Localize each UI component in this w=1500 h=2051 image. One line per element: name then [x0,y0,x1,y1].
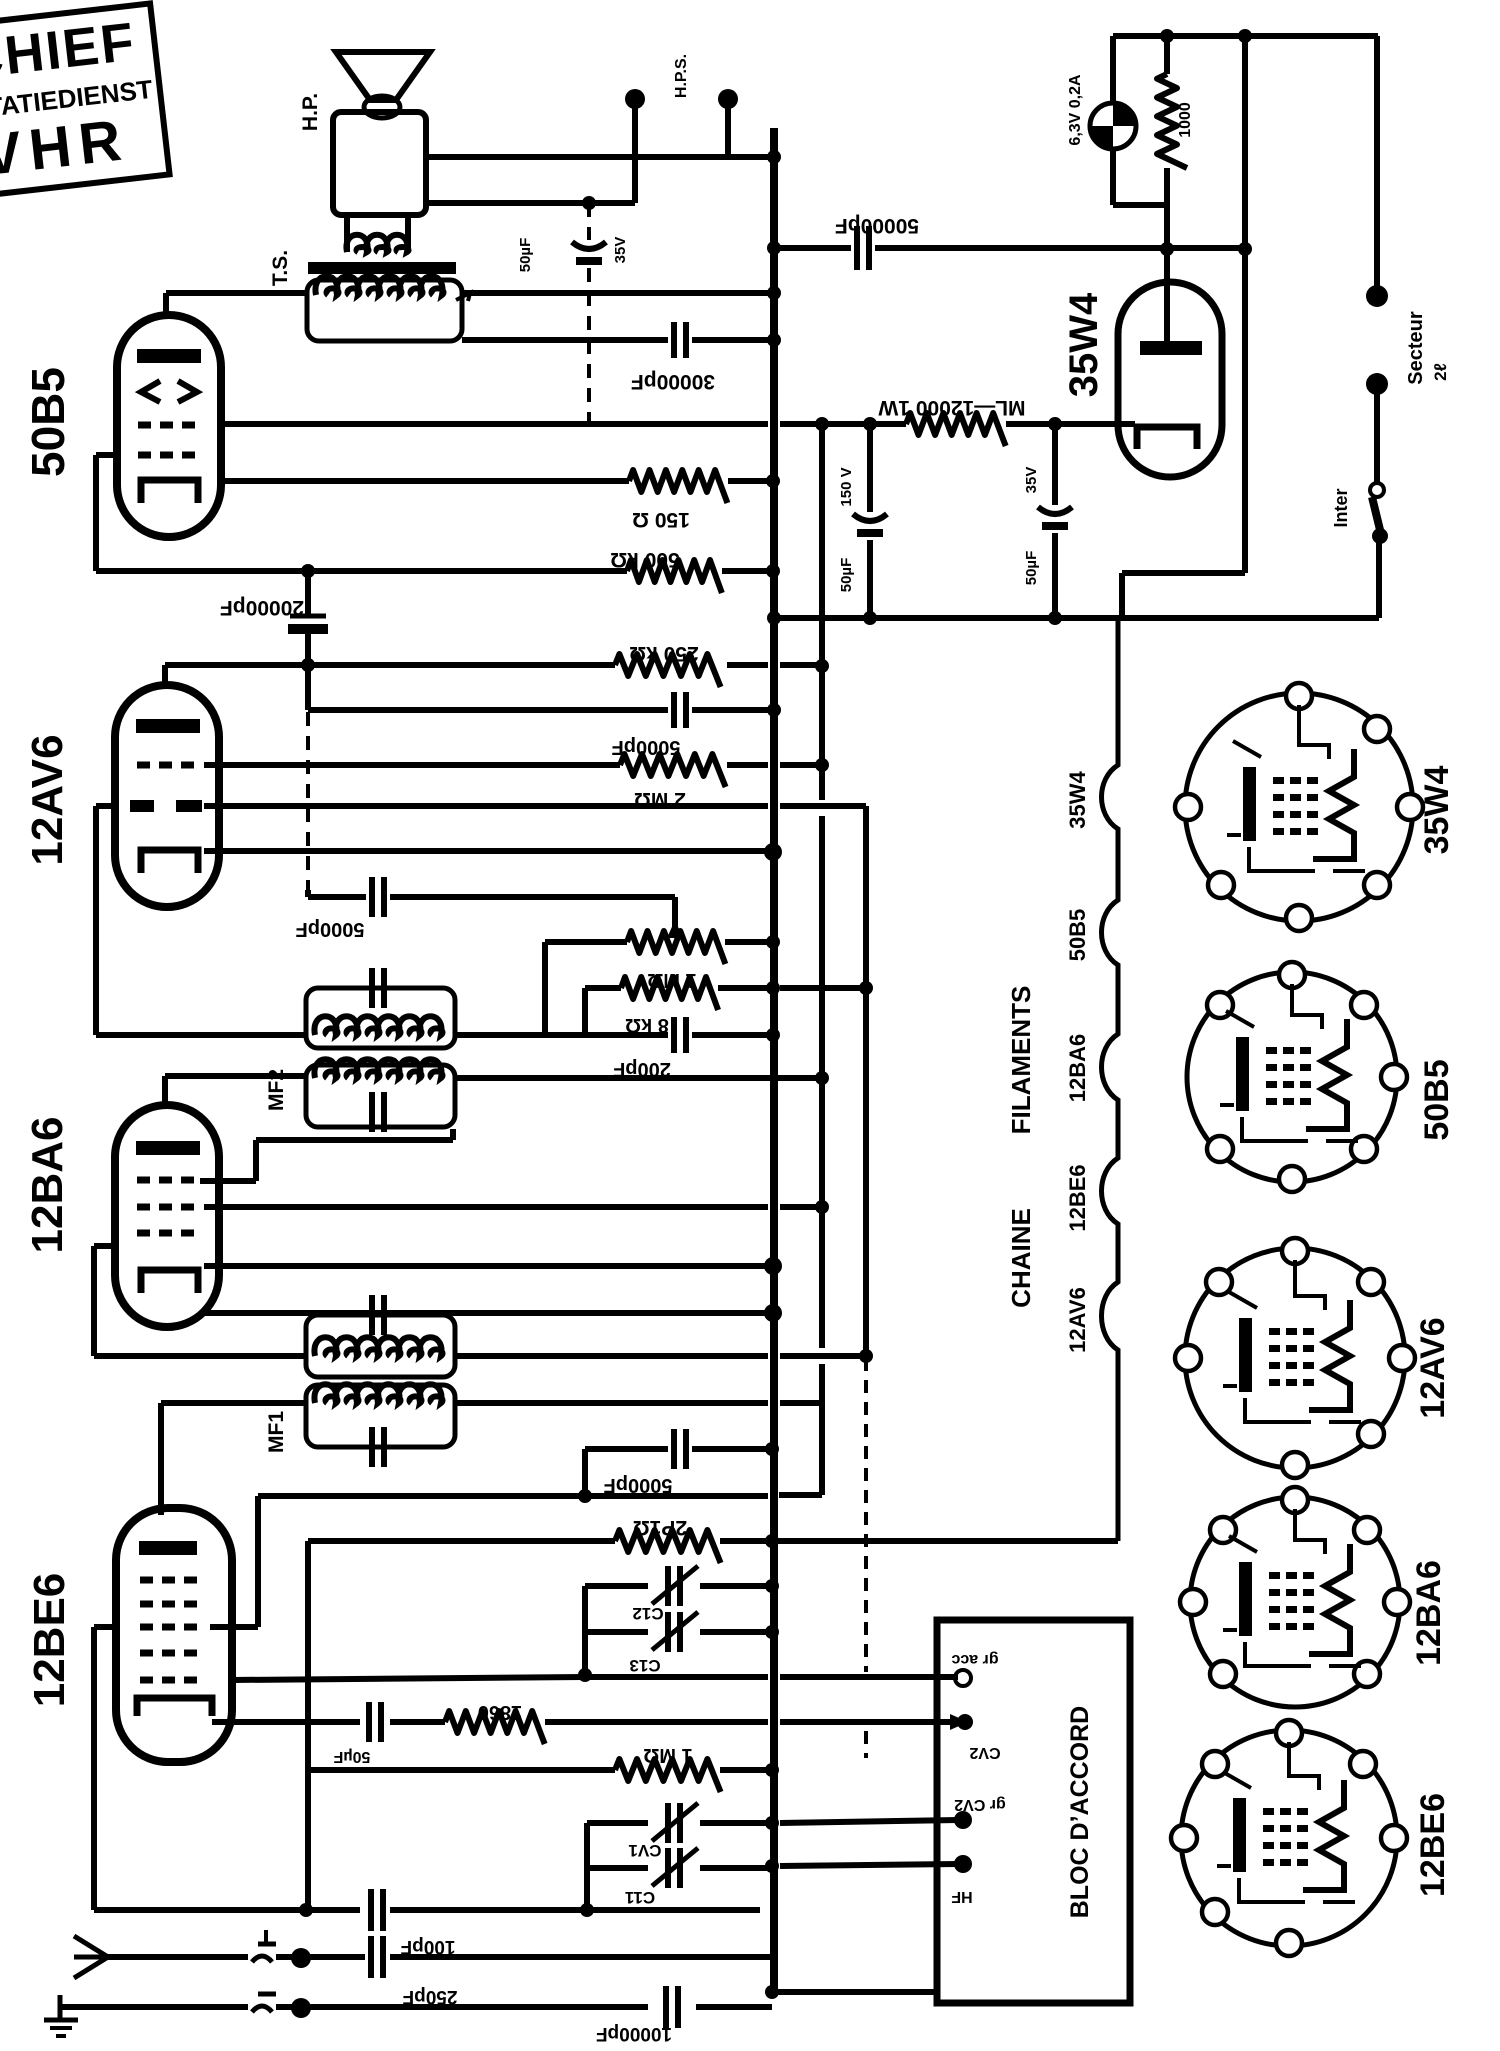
wire 1M line [545,939,627,945]
capacitor 5000pF AVC [369,877,375,917]
wire AVC cap line [305,890,311,897]
capacitor MF1 top [369,1295,375,1335]
terminal gnd [291,1998,311,2018]
wire 50B5 screen to B+ line [221,421,768,427]
svg-text:20000pF: 20000pF [220,596,304,619]
transformer MF1 bottom box [306,1385,455,1447]
wire 12AV6 grid 2M line [204,762,620,768]
wire 50B5 cathode line [221,478,629,484]
resistor 1 Mohm osc [615,1759,721,1792]
pilot lamp 6,3V 0,2A [1090,103,1136,149]
antenna series cap [252,1956,272,1962]
node 50000-bus [767,241,781,255]
wire speaker lower to terminal [426,200,635,206]
wire diode line right [204,803,768,809]
wire ant line [276,1954,365,1960]
capacitor 10000pF [663,1986,669,2028]
node bus bottom corner [765,1985,779,1999]
wire diode line left [96,803,115,809]
tube 12BE6 cathode [137,1698,212,1716]
ground symbol [58,1995,63,2020]
svg-text:500 kΩ: 500 kΩ [610,548,679,571]
wire C11 line [587,1865,648,1871]
node res bottom line [1160,242,1174,256]
tube 12AV6 cathode [141,850,198,873]
wire 30000pF line [462,337,668,343]
wire 50B5 grid line 500k [96,568,627,574]
wire screens line [258,1493,768,1499]
resistor 2 Mohm [620,754,726,787]
node coupling-plate line [301,658,315,672]
resistor 8 kohm [621,977,718,1010]
wire lamp branch [1110,36,1116,104]
wire AVC dashed [306,712,310,890]
tube 12BA6 grid rows [137,1177,200,1184]
svg-text:12BA6: 12BA6 [1065,1034,1090,1102]
svg-text:Inter: Inter [1331,488,1351,527]
wire 12BA6 1313 line [204,1310,772,1316]
capacitor 200pF [671,1017,677,1053]
svg-text:150 Ω: 150 Ω [632,508,690,531]
node screens 5000 [578,1489,592,1503]
svg-text:2P1Ω: 2P1Ω [633,1516,687,1539]
svg-text:35V: 35V [1023,467,1040,494]
wire speaker to bus [426,154,774,160]
wire osc vertical 308 [305,1541,311,1770]
speaker body [333,112,426,215]
svg-text:12BE6: 12BE6 [1065,1164,1090,1231]
wire filament step [1119,573,1125,618]
wire 12BA6 g1 to MF2 [200,1178,256,1184]
svg-text:35W4: 35W4 [1065,771,1090,829]
resistor 1000 ohm [1164,36,1170,74]
node 8k-bus [766,981,780,995]
node grid-bus [766,564,780,578]
trimmer C13 [665,1612,671,1652]
svg-text:50µF: 50µF [517,238,534,273]
wire T.S. secondary to bus [462,290,774,296]
transformer MF2 bottom coil [314,1059,442,1078]
svg-text:50B5: 50B5 [1418,1059,1456,1140]
node 2M-822 [815,758,829,772]
transformer T.S. core bar [308,262,456,274]
terminal ant [291,1948,311,1968]
node 25k bus [765,1534,779,1548]
wire bus bottom to bloc [771,1989,940,1995]
svg-text:35W4: 35W4 [1418,766,1456,855]
wire 12BE6 cathode line [212,1719,360,1725]
tube 50B5 screen grid [138,422,200,429]
capacitor 5000pF b [671,692,677,728]
svg-text:HF: HF [951,1888,973,1905]
svg-text:5000pF: 5000pF [296,918,365,940]
terminal HP 2 [725,100,731,157]
transformer MF1 top box [306,1315,455,1377]
wire 12BA6 grid left [94,1243,115,1249]
transformer MF2 top box [306,988,455,1048]
svg-text:10000pF: 10000pF [596,2023,672,2044]
bloc d'accord box [937,1620,1130,2003]
node det-bus [766,1028,780,1042]
capacitor 5000pF c [671,1429,677,1469]
svg-text:VHR: VHR [0,107,132,188]
svg-text:12BA6: 12BA6 [1410,1560,1448,1666]
capacitor 100pF [368,1889,374,1931]
capacitor 50uF cath [366,1702,372,1742]
filament chain wire [1102,618,1119,1541]
stamp VHR service [0,3,170,199]
capacitor 50uF 150V [853,514,887,521]
tube 12BE6 envelope [116,1508,232,1762]
capacitor 50000pF [854,226,860,270]
node C11 bus [765,1859,779,1873]
node 1M-bus [766,935,780,949]
wire 866 vertical [863,810,869,1352]
capacitor MF2 top [369,968,375,1008]
node 8k-866 [859,981,873,995]
svg-text:50µF: 50µF [333,1748,370,1765]
wire mains line [774,615,1379,621]
pot wiper arrow [667,920,683,938]
svg-text:12BE6: 12BE6 [25,1573,74,1708]
wire 5000pF c net [582,1449,588,1496]
wire cap35 drop [1052,424,1058,505]
wire 12BE6 plate lead [158,1403,164,1515]
svg-text:H.P.S.: H.P.S. [673,54,690,98]
node 12AV6 cathode bus [764,843,782,861]
transformer T.S. secondary coil [315,276,443,295]
tube 12BA6 plate bar [136,1141,200,1155]
svg-text:5000pF: 5000pF [604,1474,673,1496]
wire CV1 net [584,1823,590,1910]
node B+ MF2 [815,1071,829,1085]
node cathode-bus [766,474,780,488]
svg-text:12AV6: 12AV6 [1065,1287,1090,1353]
node 1313 bus [764,1304,782,1322]
terminal HF [954,1855,972,1873]
socket 12BE6 [1181,1730,1397,1946]
capacitor MF1 bottom [369,1427,375,1467]
antenna symbol [74,1936,108,1978]
svg-text:50µF: 50µF [838,558,855,593]
svg-text:12BE6: 12BE6 [1414,1793,1452,1897]
node res top [1160,29,1174,43]
wire switch down [1376,536,1382,618]
svg-text:C11: C11 [625,1888,655,1907]
tube 50B5 control grid [138,452,200,459]
terminal gr osc [954,1811,972,1829]
node speaker-bus [767,150,781,164]
tube 12AV6 envelope [115,685,219,907]
node mains-bus [767,611,781,625]
transformer MF1 top coil [314,1337,442,1356]
wire secteur to switch [1374,384,1380,484]
svg-text:35V: 35V [612,237,629,264]
svg-text:100pF: 100pF [401,1936,456,1957]
svg-text:6,3V 0,2A: 6,3V 0,2A [1067,74,1084,146]
capacitor 30000pF [671,322,677,358]
node C12C13 foot [578,1668,592,1682]
svg-text:CHAINE: CHAINE [1006,1208,1036,1308]
wire 12BE6 g3 line [232,1677,585,1680]
tube 12BA6 cathode [141,1270,198,1293]
wire 50B5 grid left [96,452,117,458]
svg-text:250 kΩ: 250 kΩ [629,642,698,665]
svg-text:35W4: 35W4 [1062,292,1106,397]
tube 35W4 plate lead [1164,249,1170,341]
wire gnd line2 [276,2004,648,2010]
resistor 25k [615,1530,721,1563]
socket 12AV6 [1185,1248,1405,1468]
node 30000-bus [767,333,781,347]
node 12BA6 cath bus [764,1257,782,1275]
tube 35W4 cathode [1137,427,1197,449]
node 250k-822 [815,659,829,673]
tube 12AV6 grid [137,762,200,769]
switch Inter [1370,483,1384,497]
svg-text:gr CV2: gr CV2 [954,1796,1006,1813]
node coupling top [301,564,315,578]
wire T.S. secondary to 50B5 plate [166,290,307,296]
wire 1M osc line [308,1767,615,1773]
resistor 1 Mohm pot [627,931,725,964]
wire right drop [1242,36,1248,573]
tube 50B5 beam plates [141,381,160,402]
svg-text:12BA6: 12BA6 [23,1117,72,1254]
svg-text:gr acc: gr acc [951,1651,998,1668]
capacitor 50uF 35V speaker [572,242,606,249]
node cap150 bottom [863,611,877,625]
transformer MF2 top coil [314,1016,442,1035]
svg-text:12AV6: 12AV6 [23,734,72,865]
tube 12AV6 plate bar [136,719,200,733]
tube 35W4 plate bar [1140,341,1202,355]
node cap150 top [863,417,877,431]
gnd series cap [252,2006,272,2012]
node 866 MF1 [859,1349,873,1363]
resistor 150 ohm [629,470,727,503]
node 5000b-bus [767,703,781,717]
resistor 12000 1W [822,421,906,427]
wire 25k line [308,1538,615,1544]
wire 12AV6 cathode line [204,848,772,854]
svg-text:1000: 1000 [1177,102,1194,138]
tube 50B5 envelope [117,315,221,537]
wire cap150 drop [867,424,873,512]
svg-text:1 MΩ: 1 MΩ [643,1744,692,1766]
transformer T.S. secondary box [307,280,462,341]
node B+ 1207 [815,1200,829,1214]
svg-text:ML—12000 1W: ML—12000 1W [878,396,1025,419]
capacitor MF2 bottom [369,1092,375,1132]
svg-text:CV1: CV1 [628,1841,661,1860]
wire 12BE6 screens right [210,1624,258,1630]
svg-text:50B5: 50B5 [22,367,74,477]
svg-text:C12: C12 [632,1604,663,1623]
wire 12AV6 plate top [162,665,168,685]
tube 50B5 cathode [141,480,198,503]
wire main bus vertical [770,128,778,1992]
tube 12BE6 plate bar [139,1541,197,1555]
node cap35 bottom [1048,611,1062,625]
node screen-822 [815,417,829,431]
wire 8k line [585,985,621,991]
svg-text:50000pF: 50000pF [835,214,919,237]
svg-text:T.S.: T.S. [269,250,292,286]
node CV1 bus [765,1816,779,1830]
tube 12AV6 diode plates [130,800,154,812]
svg-text:BLOC D’ACCORD: BLOC D’ACCORD [1066,1706,1094,1919]
wire 12BE6 grid left [94,1624,116,1630]
transformer T.S. primary coil [346,235,408,252]
node T.S.-bus [767,286,781,300]
tube 35W4 envelope [1118,282,1222,477]
terminal gr acc [955,1670,971,1686]
node CV1 foot [580,1903,594,1917]
terminal secteur 1 [1366,285,1388,307]
svg-text:150 V: 150 V [838,467,855,506]
resistor 250 kohm [615,654,721,687]
transformer MF2 bottom box [306,1065,455,1127]
socket 35W4 [1185,693,1413,921]
wire dashed speaker drop [587,203,591,240]
capacitor 50uF 35V b [1038,507,1072,514]
trimmer C12 [665,1566,671,1606]
node right drop top [1238,29,1252,43]
svg-text:250pF: 250pF [403,1986,458,2007]
wire detector line [96,1032,306,1038]
node C12 bus [765,1579,779,1593]
wire coupling vertical [305,571,311,614]
wire top line [1113,33,1378,39]
wire MF1 bottom line [161,1400,306,1406]
svg-text:H.P.: H.P. [299,93,322,131]
wire 50000pF line [774,245,851,251]
wire MF2 to B+ [455,1075,822,1081]
socket 50B5 [1187,972,1397,1182]
wire MF1 top line [94,1353,306,1359]
node speaker drop [582,196,596,210]
svg-text:50B5: 50B5 [1065,909,1090,962]
svg-text:12AV6: 12AV6 [1414,1317,1452,1418]
wire 50B5 plate top lead [163,293,169,315]
tube 12BA6 envelope [115,1105,219,1327]
svg-text:1860: 1860 [478,1701,523,1723]
svg-text:CV2: CV2 [969,1744,1000,1761]
tube 12BE6 grid rows [140,1577,205,1584]
wire osc grid line [94,1907,360,1913]
speaker H.P. horn [336,52,430,100]
svg-text:C13: C13 [629,1656,660,1675]
transformer MF1 bottom coil [314,1384,442,1403]
terminal secteur 2 [1366,373,1388,395]
trimmer CV1 [665,1803,671,1843]
node C13 bus [765,1625,779,1639]
wire C13 line [585,1629,648,1635]
svg-text:2ℓ: 2ℓ [1431,363,1450,381]
svg-text:Secteur: Secteur [1405,311,1427,385]
node 1Mosc bus [765,1763,779,1777]
wire plate 250k line [165,662,615,668]
capacitor 20000pF [290,614,326,619]
resistor 1860 [445,1711,545,1744]
tube 50B5 plate bar [137,349,201,363]
node right drop 248 [1238,242,1252,256]
trimmer C11 [665,1848,671,1888]
node cap35 top [1048,417,1062,431]
socket 12BA6 [1190,1497,1400,1707]
terminal HP 1 [632,100,638,203]
wire 5000pF line [308,707,668,713]
wire C12 net [582,1586,588,1673]
terminal CV2 [957,1714,973,1730]
wire secteur top [1374,36,1380,294]
wire 12BA6 cathode line [204,1263,772,1269]
wire 12BA6 1207 line [204,1204,768,1210]
speaker throat [364,96,400,118]
svg-text:FILAMENTS: FILAMENTS [1006,986,1036,1135]
resistor 500 kohm [627,560,722,593]
capacitor 250pF [368,1936,374,1978]
wire 12BA6 plate lead [162,1076,168,1105]
wire B+ vertical [819,424,825,800]
node grid 308 [299,1903,313,1917]
transformer T.S. wire body-left-down [344,215,350,252]
svg-text:50µF: 50µF [1023,551,1040,586]
node 5000c bus [765,1442,779,1456]
wire gnd line [60,2004,248,2010]
svg-text:MF1: MF1 [265,1411,288,1453]
svg-text:30000pF: 30000pF [631,370,715,393]
